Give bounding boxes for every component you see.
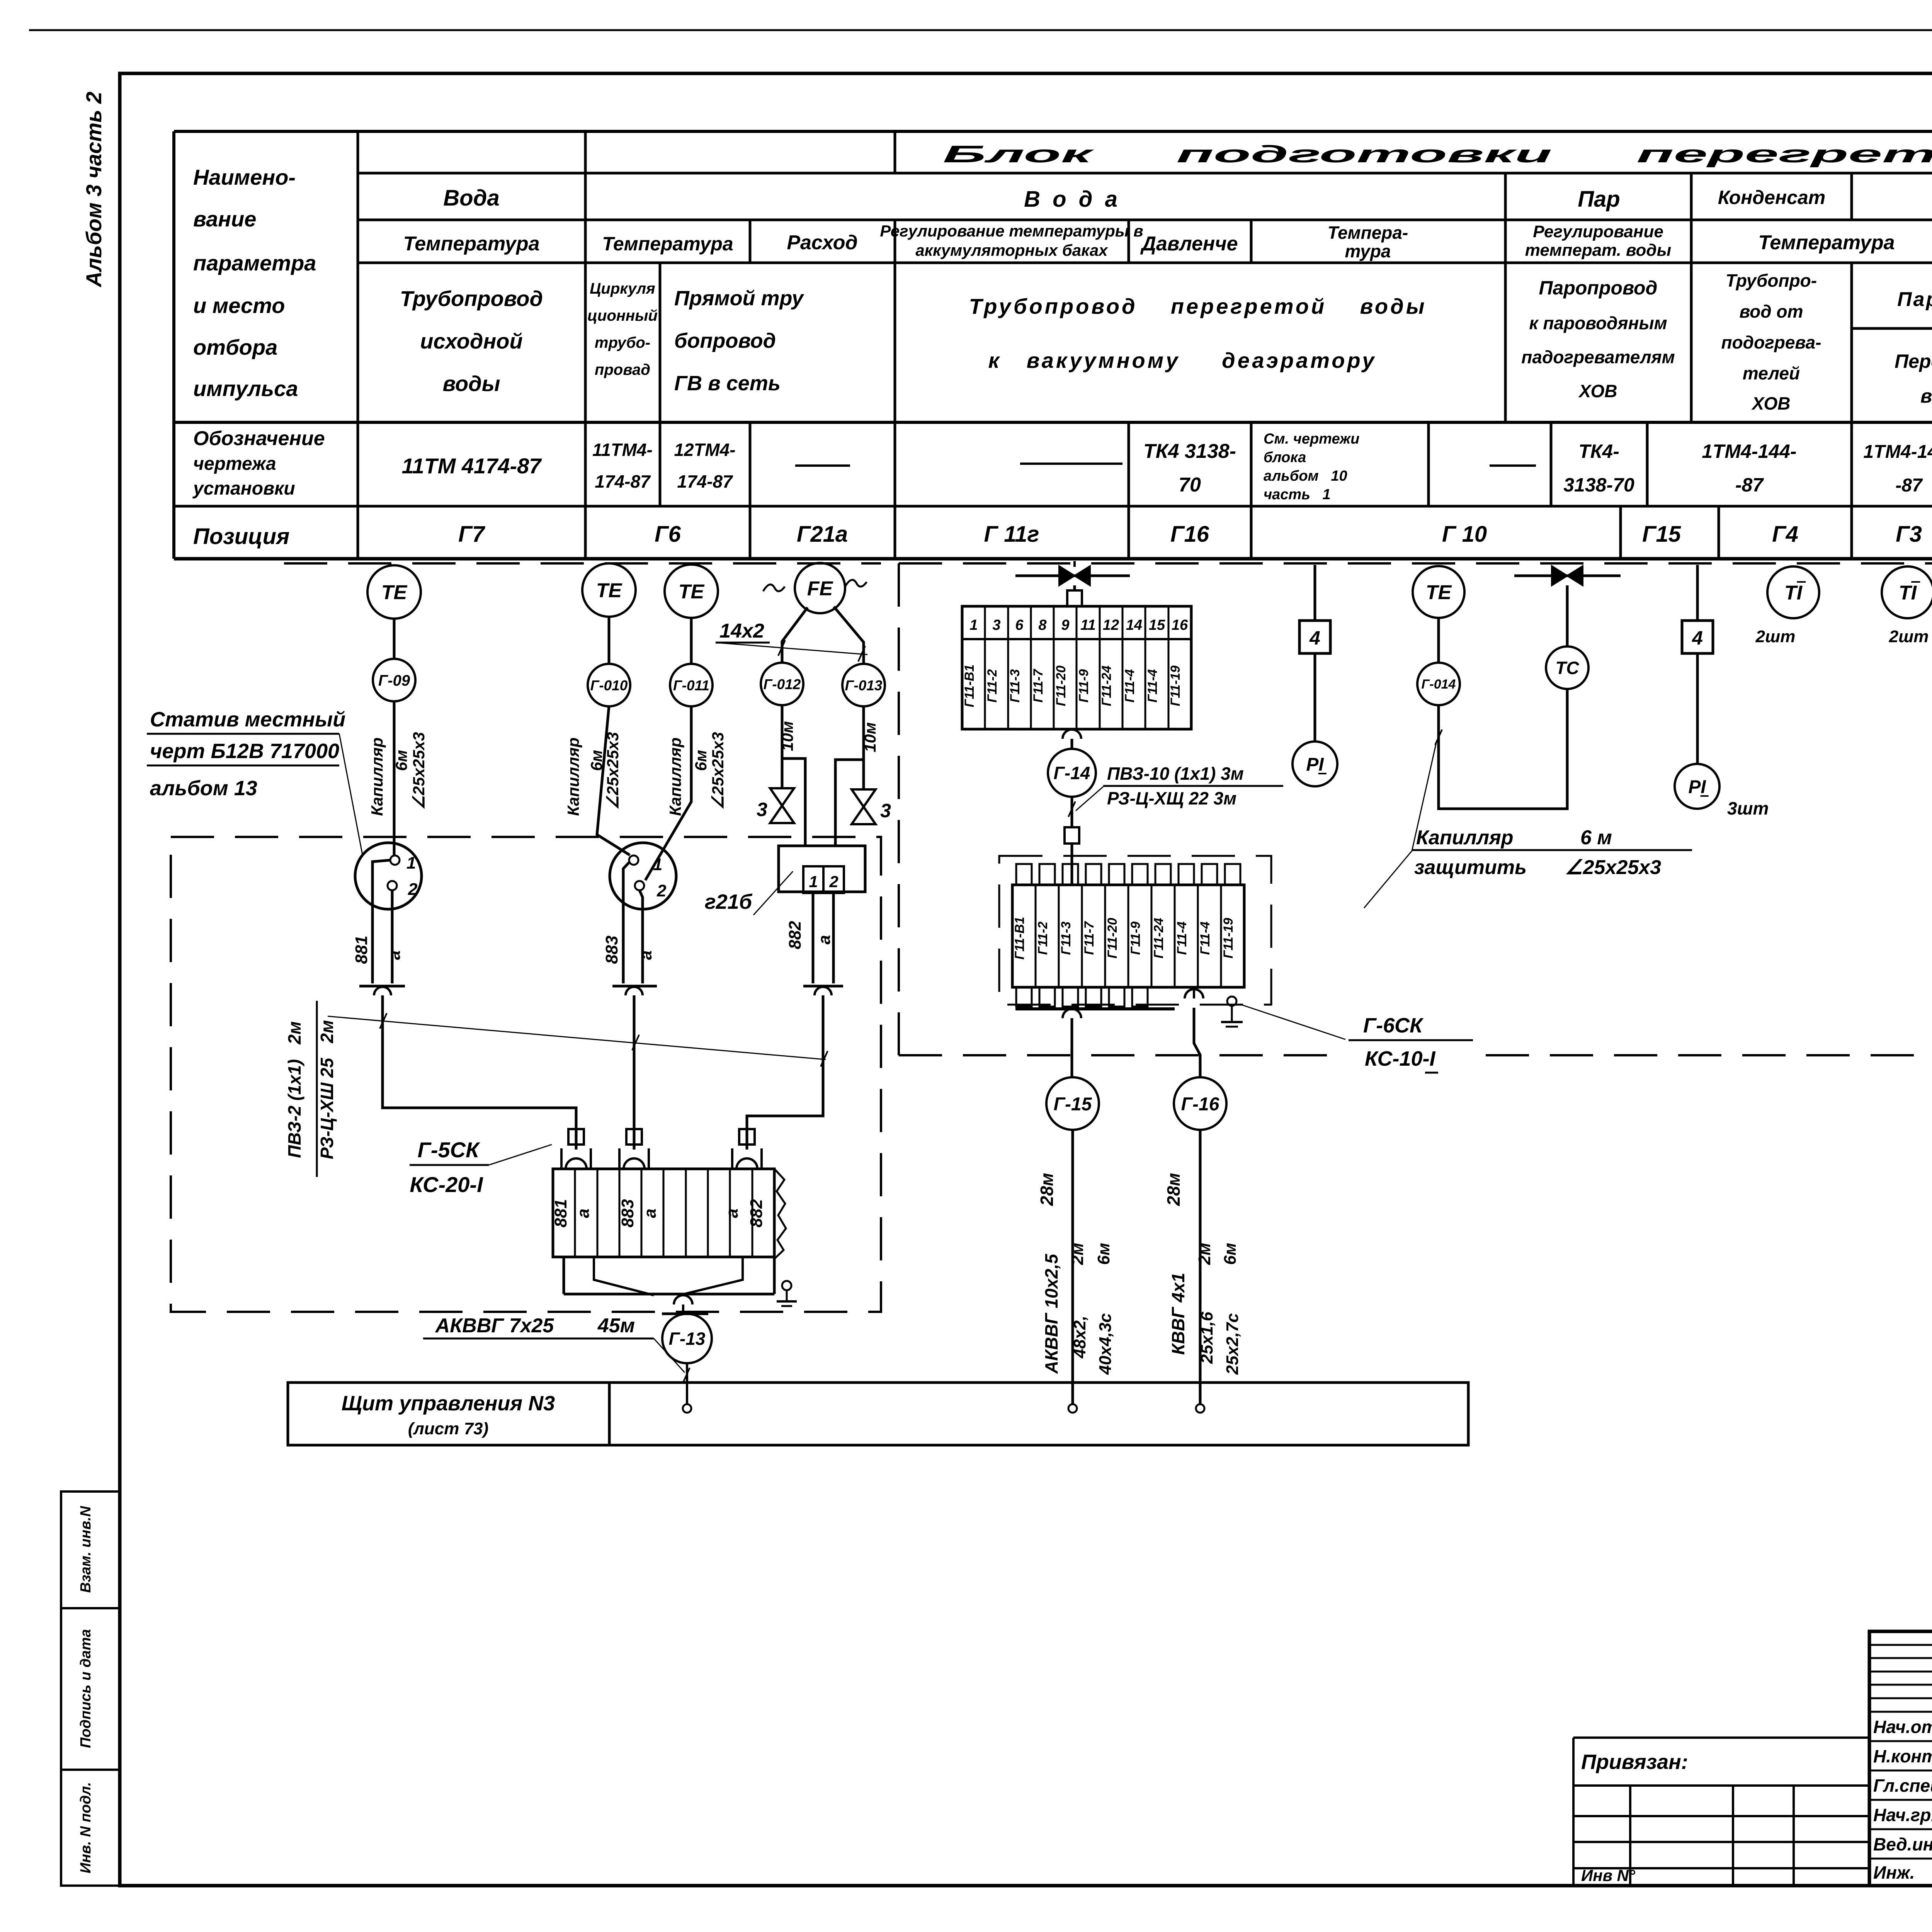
- svg-text:16: 16: [1172, 617, 1188, 633]
- svg-text:Г11-В1: Г11-В1: [1012, 917, 1027, 960]
- svg-text:к пароводяным: к пароводяным: [1529, 313, 1667, 333]
- svg-text:883: 883: [602, 935, 621, 964]
- svg-text:∠25х25х3: ∠25х25х3: [410, 732, 428, 810]
- svg-text:9: 9: [1061, 617, 1069, 633]
- svg-text:вание: вание: [193, 207, 256, 231]
- svg-text:28м: 28м: [1163, 1173, 1184, 1206]
- svg-text:ТК4-: ТК4-: [1578, 440, 1619, 462]
- svg-text:См. чертежи: См. чертежи: [1264, 431, 1359, 447]
- svg-text:45м: 45м: [597, 1315, 635, 1337]
- svg-text:вод от: вод от: [1740, 301, 1803, 321]
- svg-text:бопровод: бопровод: [674, 329, 776, 352]
- svg-text:параметра: параметра: [193, 251, 316, 275]
- svg-text:Трубопровод: Трубопровод: [400, 286, 543, 311]
- svg-text:АКВВГ 10х2,5: АКВВГ 10х2,5: [1041, 1253, 1061, 1374]
- svg-text:Капилляр: Капилляр: [564, 737, 582, 816]
- svg-text:Наимено-: Наимено-: [193, 165, 296, 189]
- svg-text:4: 4: [1309, 627, 1320, 649]
- svg-text:Температура: Температура: [602, 233, 733, 255]
- svg-text:Г11-4: Г11-4: [1122, 669, 1137, 702]
- svg-text:температ. воды: температ. воды: [1525, 241, 1671, 260]
- svg-text:Г11-9: Г11-9: [1077, 669, 1091, 702]
- svg-text:ТI: ТI: [1899, 582, 1917, 604]
- svg-text:отбора: отбора: [193, 335, 277, 359]
- svg-text:альбом 10: альбом 10: [1264, 468, 1347, 484]
- svg-text:падогревателям: падогревателям: [1521, 347, 1675, 367]
- svg-text:Г-15: Г-15: [1054, 1094, 1092, 1114]
- svg-text:Г-16: Г-16: [1181, 1094, 1219, 1114]
- svg-text:Перед подогре-: Перед подогре-: [1895, 350, 1932, 372]
- svg-text:РЗ-Ц-ХШ 25 2м: РЗ-Ц-ХШ 25 2м: [317, 1020, 337, 1159]
- svg-text:12: 12: [1103, 617, 1119, 633]
- svg-text:Г11-24: Г11-24: [1151, 918, 1166, 958]
- svg-text:ТС: ТС: [1555, 658, 1579, 678]
- svg-text:часть 1: часть 1: [1264, 486, 1331, 503]
- svg-text:11ТМ4-: 11ТМ4-: [592, 440, 653, 460]
- svg-text:6 м: 6 м: [1580, 827, 1612, 849]
- svg-text:Расход: Расход: [787, 231, 857, 254]
- svg-text:Давленче: Давленче: [1140, 233, 1238, 255]
- svg-text:подогрева-: подогрева-: [1721, 332, 1821, 352]
- svg-text:Подпись и дата: Подпись и дата: [78, 1629, 94, 1748]
- svg-text:блока: блока: [1264, 449, 1306, 466]
- svg-text:FE: FE: [807, 578, 833, 600]
- svg-text:РЗ-Ц-ХЩ 22 3м: РЗ-Ц-ХЩ 22 3м: [1107, 788, 1236, 808]
- svg-text:Г4: Г4: [1772, 522, 1798, 547]
- svg-text:Температура: Температура: [1758, 231, 1895, 254]
- svg-text:РI: РI: [1306, 754, 1324, 775]
- svg-text:Вед.инж.: Вед.инж.: [1873, 1834, 1932, 1854]
- svg-text:Нач.гр.: Нач.гр.: [1873, 1805, 1932, 1825]
- svg-text:Г11-4: Г11-4: [1198, 922, 1213, 955]
- svg-text:Инв. N подл.: Инв. N подл.: [78, 1782, 94, 1873]
- svg-text:6м: 6м: [392, 750, 410, 771]
- svg-text:-87: -87: [1895, 475, 1923, 496]
- svg-text:а: а: [636, 951, 655, 960]
- svg-text:2шт: 2шт: [1755, 627, 1796, 646]
- svg-text:КВВГ 4х1: КВВГ 4х1: [1168, 1273, 1188, 1355]
- svg-text:14х2: 14х2: [719, 620, 764, 642]
- svg-text:14: 14: [1126, 617, 1142, 633]
- svg-text:Конденсат: Конденсат: [1718, 187, 1826, 208]
- svg-text:Г-010: Г-010: [590, 677, 628, 693]
- svg-text:телей: телей: [1743, 363, 1800, 383]
- svg-text:ТЕ: ТЕ: [1426, 582, 1452, 604]
- svg-text:ХОВ: ХОВ: [1578, 381, 1617, 401]
- svg-text:ТI: ТI: [1784, 582, 1803, 604]
- svg-text:Пар: Пар: [1578, 187, 1620, 212]
- svg-text:исходной: исходной: [420, 329, 522, 353]
- svg-text:а: а: [385, 951, 404, 960]
- svg-text:70: 70: [1179, 474, 1201, 496]
- svg-text:1: 1: [406, 854, 416, 872]
- svg-text:883: 883: [618, 1199, 637, 1227]
- svg-text:Капилляр: Капилляр: [368, 737, 386, 816]
- svg-text:а: а: [641, 1209, 660, 1218]
- svg-text:3: 3: [757, 799, 767, 820]
- svg-text:черт Б12В 717000: черт Б12В 717000: [150, 740, 339, 763]
- svg-text:тура: тура: [1345, 241, 1391, 261]
- svg-text:48х2,: 48х2,: [1070, 1316, 1089, 1359]
- svg-text:∠25х25х3: ∠25х25х3: [709, 732, 727, 810]
- svg-text:РI: РI: [1688, 777, 1706, 797]
- svg-text:Г11-20: Г11-20: [1105, 918, 1120, 958]
- svg-text:провад: провад: [595, 361, 650, 378]
- svg-text:(лист 73): (лист 73): [408, 1419, 488, 1438]
- svg-text:КС-20-I: КС-20-I: [410, 1172, 483, 1197]
- svg-text:Щит управления N3: Щит управления N3: [342, 1392, 555, 1415]
- svg-text:Трубопровод перегретой в: Трубопровод перегретой воды: [969, 294, 1427, 318]
- svg-text:10м: 10м: [778, 721, 796, 751]
- svg-text:Г11-4: Г11-4: [1145, 669, 1160, 702]
- svg-text:174-87: 174-87: [595, 471, 651, 492]
- svg-text:Прямой тру: Прямой тру: [674, 287, 804, 310]
- svg-text:15: 15: [1149, 617, 1165, 633]
- svg-text:25х1,6: 25х1,6: [1197, 1311, 1216, 1364]
- svg-text:воды: воды: [442, 371, 500, 396]
- svg-text:Г-13: Г-13: [669, 1329, 706, 1349]
- svg-text:2: 2: [829, 872, 838, 891]
- svg-text:а: а: [574, 1209, 593, 1218]
- svg-text:Г11-3: Г11-3: [1059, 922, 1073, 955]
- svg-text:2м: 2м: [1195, 1243, 1214, 1265]
- svg-text:Г11-7: Г11-7: [1031, 668, 1046, 702]
- svg-text:11: 11: [1080, 617, 1095, 633]
- svg-text:Г 11г: Г 11г: [984, 522, 1039, 547]
- svg-text:2м: 2м: [1068, 1243, 1087, 1265]
- svg-text:Трубопро-: Трубопро-: [1726, 270, 1817, 291]
- svg-text:ТЕ: ТЕ: [596, 580, 622, 602]
- svg-text:3шт: 3шт: [1727, 798, 1769, 818]
- svg-text:ГВ в сеть: ГВ в сеть: [674, 372, 781, 395]
- svg-text:а: а: [815, 935, 834, 944]
- svg-text:трубо-: трубо-: [595, 334, 650, 351]
- svg-text:40х4,3с: 40х4,3с: [1096, 1313, 1115, 1375]
- svg-text:к вакуумному деаэратору: к вакуумному деаэратору: [988, 348, 1377, 372]
- svg-text:10м: 10м: [861, 722, 879, 752]
- svg-text:Г11-В1: Г11-В1: [962, 665, 977, 707]
- svg-text:11ТМ 4174-87: 11ТМ 4174-87: [402, 454, 543, 478]
- svg-text:Инж.: Инж.: [1873, 1862, 1915, 1883]
- svg-text:Г16: Г16: [1170, 522, 1209, 547]
- svg-text:Г11-20: Г11-20: [1054, 665, 1068, 706]
- svg-text:Г-5СК: Г-5СК: [417, 1138, 480, 1162]
- svg-text:г21б: г21б: [705, 890, 753, 913]
- svg-text:882: 882: [747, 1199, 766, 1228]
- svg-text:Регулирование температуры в: Регулирование температуры в: [880, 222, 1143, 240]
- svg-text:Г11-3: Г11-3: [1008, 669, 1022, 702]
- svg-text:Паропровод: Паропровод: [1539, 277, 1658, 299]
- svg-text:-87: -87: [1735, 474, 1764, 496]
- svg-text:Гл.спец.: Гл.спец.: [1873, 1776, 1932, 1796]
- svg-text:альбом 13: альбом 13: [150, 777, 257, 800]
- svg-text:Г-09: Г-09: [378, 672, 410, 689]
- svg-text:Статив местный: Статив местный: [150, 708, 345, 731]
- svg-text:882: 882: [786, 921, 804, 949]
- svg-text:ПВЗ-10 (1х1) 3м: ПВЗ-10 (1х1) 3м: [1107, 764, 1244, 784]
- svg-text:ционный: ционный: [587, 307, 658, 324]
- svg-text:6м: 6м: [587, 750, 605, 771]
- svg-text:Температура: Температура: [403, 233, 539, 255]
- svg-text:Г-014: Г-014: [1422, 677, 1456, 692]
- svg-text:3: 3: [880, 800, 891, 821]
- svg-text:Темпера-: Темпера-: [1328, 223, 1408, 243]
- svg-text:881: 881: [352, 935, 371, 964]
- svg-text:Г21а: Г21а: [797, 522, 848, 547]
- svg-text:установки: установки: [192, 478, 295, 499]
- svg-text:Г-011: Г-011: [673, 677, 709, 693]
- svg-text:6м: 6м: [692, 750, 710, 771]
- svg-text:Привязан:: Привязан:: [1581, 1750, 1688, 1774]
- svg-text:ХОВ: ХОВ: [1751, 393, 1790, 413]
- svg-text:Г15: Г15: [1642, 522, 1681, 547]
- svg-text:Н.контр.: Н.контр.: [1873, 1746, 1932, 1766]
- svg-text:∠25х25х3: ∠25х25х3: [1565, 856, 1661, 879]
- svg-text:Капилляр: Капилляр: [1416, 827, 1514, 849]
- svg-text:Пароводяные подогреватели: Пароводяные подогреватели: [1897, 288, 1932, 311]
- svg-text:6м: 6м: [1094, 1243, 1113, 1265]
- svg-text:Взам. инв.N: Взам. инв.N: [78, 1505, 94, 1593]
- svg-text:Циркуля: Циркуля: [590, 280, 655, 297]
- svg-text:6: 6: [1015, 617, 1024, 633]
- svg-text:1: 1: [653, 855, 662, 874]
- svg-text:12ТМ4-: 12ТМ4-: [674, 440, 735, 460]
- svg-text:2: 2: [656, 881, 667, 900]
- svg-text:174-87: 174-87: [677, 471, 733, 492]
- svg-text:∠25х25х3: ∠25х25х3: [604, 732, 622, 810]
- svg-text:ТЕ: ТЕ: [679, 581, 705, 603]
- svg-text:3: 3: [992, 617, 1000, 633]
- svg-text:2: 2: [408, 880, 418, 899]
- svg-text:Альбом 3 часть 2: Альбом 3 часть 2: [82, 92, 106, 288]
- svg-text:1: 1: [969, 617, 978, 633]
- svg-text:Инв N°: Инв N°: [1581, 1866, 1636, 1884]
- svg-text:Г-013: Г-013: [845, 677, 883, 693]
- svg-text:Г11-24: Г11-24: [1099, 665, 1114, 706]
- svg-text:Г11-4: Г11-4: [1175, 922, 1189, 955]
- svg-text:и место: и место: [193, 293, 285, 318]
- svg-text:ТЕ: ТЕ: [381, 582, 408, 604]
- svg-text:Обозначение: Обозначение: [193, 427, 325, 450]
- svg-text:Г11-19: Г11-19: [1221, 918, 1236, 958]
- svg-text:В о д а: В о д а: [1024, 187, 1121, 212]
- svg-text:защитить: защитить: [1414, 856, 1527, 879]
- svg-text:881: 881: [551, 1199, 570, 1227]
- svg-text:Г6: Г6: [655, 522, 681, 547]
- svg-text:Нач.отд.: Нач.отд.: [1873, 1717, 1932, 1737]
- svg-text:Капилляр: Капилляр: [666, 737, 684, 816]
- svg-text:Г11-2: Г11-2: [985, 669, 1000, 702]
- svg-text:а: а: [723, 1209, 742, 1218]
- svg-text:вателями: вателями: [1920, 385, 1932, 407]
- svg-text:1ТМ4-144-: 1ТМ4-144-: [1702, 440, 1796, 462]
- svg-text:Г-6СК: Г-6СК: [1363, 1014, 1424, 1037]
- svg-text:АКВВГ 7х25: АКВВГ 7х25: [435, 1315, 554, 1337]
- svg-text:3138-70: 3138-70: [1563, 474, 1634, 496]
- svg-text:Регулирование: Регулирование: [1533, 222, 1663, 241]
- svg-text:Г-012: Г-012: [764, 676, 801, 692]
- svg-text:импульса: импульса: [193, 376, 298, 401]
- svg-text:аккумуляторных баках: аккумуляторных баках: [915, 241, 1108, 259]
- svg-text:2шт: 2шт: [1889, 627, 1929, 646]
- svg-text:ТК4 3138-: ТК4 3138-: [1143, 440, 1236, 463]
- svg-text:Г 10: Г 10: [1442, 522, 1487, 547]
- svg-text:25х2,7с: 25х2,7с: [1223, 1313, 1242, 1375]
- svg-text:Вода: Вода: [443, 185, 499, 211]
- svg-text:Г11-9: Г11-9: [1128, 922, 1143, 955]
- svg-text:4: 4: [1692, 627, 1703, 649]
- svg-text:ПВЗ-2 (1х1) 2м: ПВЗ-2 (1х1) 2м: [284, 1021, 304, 1158]
- svg-text:Г-14: Г-14: [1054, 763, 1090, 783]
- svg-text:Г7: Г7: [458, 522, 486, 547]
- svg-text:Г3: Г3: [1896, 522, 1922, 547]
- svg-text:чертежа: чертежа: [193, 454, 276, 474]
- svg-text:Г11-2: Г11-2: [1036, 922, 1050, 955]
- svg-text:Г11-19: Г11-19: [1168, 665, 1183, 706]
- svg-text:28м: 28м: [1037, 1173, 1057, 1206]
- svg-text:Позиция: Позиция: [193, 524, 289, 549]
- svg-text:КС-10-I: КС-10-I: [1365, 1047, 1436, 1070]
- svg-text:8: 8: [1038, 617, 1047, 633]
- svg-text:6м: 6м: [1221, 1243, 1240, 1265]
- svg-text:Блок подготовки перегр: Блок подготовки перегретой воды: [943, 141, 1932, 168]
- svg-text:Г11-7: Г11-7: [1082, 921, 1097, 955]
- svg-text:1ТМ4-142-: 1ТМ4-142-: [1863, 442, 1932, 462]
- svg-text:1: 1: [809, 872, 818, 891]
